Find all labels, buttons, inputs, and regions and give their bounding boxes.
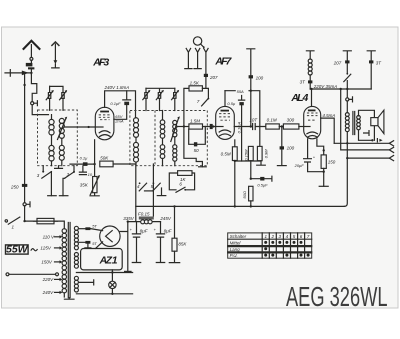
svg-text:0.5μ: 0.5μ bbox=[227, 101, 236, 106]
svg-text:0.5M: 0.5M bbox=[221, 152, 231, 157]
wire anode AF3 to 240V rail bbox=[105, 91, 136, 118]
wire bbox=[24, 187, 26, 203]
capacitor 0.1uF anode bbox=[123, 91, 131, 100]
wire bbox=[30, 60, 32, 74]
node antenna jack bbox=[30, 57, 33, 60]
ground external earth bar bbox=[9, 70, 11, 77]
jack headphone bbox=[364, 131, 369, 136]
svg-text:8μF: 8μF bbox=[164, 228, 172, 233]
wire AF7 top cap bbox=[224, 91, 226, 107]
capacitor 0.5u screen bbox=[239, 96, 245, 101]
node plug P1 bbox=[31, 102, 34, 105]
resistor 300 bbox=[283, 124, 299, 129]
speaker driver bbox=[371, 118, 378, 126]
node bbox=[212, 125, 214, 127]
node bbox=[23, 84, 25, 86]
coil L7 bbox=[160, 120, 165, 138]
svg-text:8μF: 8μF bbox=[140, 228, 148, 233]
wire antenna lead-in bbox=[30, 45, 32, 58]
resistor 0.5M bbox=[234, 140, 236, 147]
cathode AF7 arcs bbox=[219, 130, 230, 136]
symbol AC bbox=[31, 249, 38, 251]
connector arrow earth bbox=[22, 71, 29, 76]
svg-text:AF3: AF3 bbox=[92, 56, 109, 68]
svg-text:5T: 5T bbox=[92, 241, 97, 246]
polarity marks speaker lead bbox=[376, 139, 378, 142]
capacitor 3T bbox=[308, 80, 312, 83]
lamp dial indicator bbox=[193, 37, 201, 45]
switch S1 mains bbox=[5, 220, 7, 222]
ground cathode bbox=[257, 161, 266, 165]
svg-text:0.1μ: 0.1μ bbox=[80, 155, 89, 160]
svg-text:100: 100 bbox=[256, 75, 264, 80]
svg-text:50Ω: 50Ω bbox=[242, 191, 247, 199]
tube AL4 envelope bbox=[304, 106, 321, 138]
node bbox=[183, 125, 185, 127]
svg-text:AEG 326WL: AEG 326WL bbox=[286, 281, 388, 312]
svg-text:0.9M: 0.9M bbox=[264, 149, 269, 159]
transformer secondary mid bbox=[74, 253, 78, 269]
resistor 1.5K bbox=[189, 86, 202, 91]
node bbox=[250, 90, 252, 92]
coil L5 bbox=[134, 118, 139, 138]
capacitor 5T lower bbox=[96, 242, 103, 249]
wire bbox=[203, 126, 216, 128]
wire bbox=[113, 163, 136, 165]
wire band filter II internal bbox=[136, 111, 175, 166]
capacitor 10T coupling bbox=[234, 124, 265, 130]
tap T3 bbox=[343, 51, 351, 61]
svg-text:Schalter: Schalter bbox=[230, 234, 247, 239]
pin dial lamp 3 bbox=[204, 48, 208, 73]
wire grid lead inside AF7 bbox=[216, 126, 223, 128]
resistor 0.1M bbox=[266, 124, 280, 129]
capacitor 0.1u cathode bbox=[70, 163, 95, 165]
capacitor 0.5uF tone bbox=[251, 176, 272, 181]
tube AZ1 rectifier bbox=[100, 226, 120, 246]
capacitor 100 decoupling bbox=[249, 75, 253, 78]
wire cathode AF3 down bbox=[94, 140, 96, 164]
wire heater rails bbox=[76, 273, 132, 294]
capacitor 207 bbox=[204, 74, 208, 77]
band filter II dashed box bbox=[130, 111, 207, 166]
ground 100 bbox=[277, 165, 286, 167]
switch S2 speaker bbox=[346, 73, 348, 75]
svg-text:245V: 245V bbox=[159, 216, 172, 221]
resistor 85K bleeder bbox=[174, 206, 176, 238]
svg-text:0.1M: 0.1M bbox=[267, 118, 277, 123]
svg-text:P.U.: P.U. bbox=[230, 253, 238, 258]
svg-text:220V 35mA: 220V 35mA bbox=[313, 84, 338, 89]
svg-text:1.5M: 1.5M bbox=[190, 118, 200, 123]
svg-text:0.15M: 0.15M bbox=[244, 149, 249, 161]
trimmer capacitor C3 bbox=[143, 88, 151, 110]
svg-text:100: 100 bbox=[287, 146, 295, 151]
svg-text:AL 4: AL 4 bbox=[290, 92, 308, 104]
rail top B+ tap T1 bbox=[247, 49, 255, 75]
cathode AF3 arcs bbox=[99, 131, 110, 137]
tap T4 bbox=[367, 51, 375, 61]
ground band filter I bbox=[55, 166, 63, 169]
wire voltage selector bbox=[6, 273, 9, 276]
trimmer capacitor C5 bbox=[172, 88, 180, 110]
ground antenna2 bar bbox=[52, 64, 59, 68]
node bbox=[93, 163, 95, 165]
coil L1 antenna primary bbox=[49, 119, 54, 135]
arrow variable coupling L9 bbox=[171, 118, 179, 141]
core mains transformer bbox=[68, 223, 70, 298]
capacitor 5T upper bbox=[90, 229, 102, 231]
svg-text:F0.15: F0.15 bbox=[138, 211, 150, 216]
grid AL4 dashes bbox=[307, 113, 318, 120]
tap T2 with choke bbox=[306, 51, 314, 59]
node bbox=[23, 220, 25, 222]
node junction A bbox=[30, 72, 32, 74]
coil L3 bbox=[49, 145, 54, 161]
wire bus B+ bbox=[136, 205, 344, 207]
switch S5 bbox=[152, 164, 154, 216]
svg-text:240V 1.8mA: 240V 1.8mA bbox=[104, 85, 130, 90]
svg-text:207: 207 bbox=[333, 60, 342, 65]
speaker cone bbox=[378, 110, 384, 134]
anode AL4 bbox=[308, 110, 316, 112]
svg-text:150: 150 bbox=[328, 159, 336, 164]
tube AF7 envelope bbox=[216, 106, 235, 139]
svg-text:50: 50 bbox=[194, 148, 200, 153]
pin dial lamp 1 bbox=[185, 48, 192, 68]
svg-text:35K: 35K bbox=[80, 182, 89, 187]
label 55A on loop bbox=[236, 89, 249, 93]
ground S3b bbox=[59, 195, 68, 197]
transformer secondary heater bbox=[74, 276, 78, 292]
resistor 0.15M bbox=[248, 146, 253, 160]
svg-text:335V: 335V bbox=[123, 216, 135, 221]
wire shield loop top bbox=[225, 91, 260, 147]
grid AF3 dashes bbox=[99, 115, 111, 120]
wire line1 output bbox=[334, 142, 389, 144]
wire main line left bbox=[24, 73, 26, 184]
resistor 1.5M grid leak bbox=[189, 124, 203, 129]
grid AF7 dashes bbox=[219, 114, 231, 121]
ground AVC bbox=[199, 166, 207, 168]
switch S3b waveband bbox=[65, 172, 74, 178]
ground S5 bbox=[157, 195, 166, 197]
wire AVC up to 1.5K bbox=[184, 88, 189, 126]
capacitor 100 grid AL4 bbox=[281, 127, 283, 147]
fuse mains bbox=[37, 218, 54, 223]
tube AF3 envelope bbox=[95, 107, 114, 140]
transformer secondary heater AZ1 bbox=[74, 226, 78, 250]
loop resistor feedback with capacitor 50 bbox=[189, 127, 206, 145]
svg-text:4.5mA: 4.5mA bbox=[322, 113, 335, 118]
wire grid lead inside AF3 bbox=[96, 126, 104, 128]
node plug P2 bbox=[23, 203, 26, 206]
capacitor 3T right bbox=[369, 60, 373, 63]
wire grid lead inside AL4 bbox=[304, 126, 310, 128]
coil L4 bbox=[59, 145, 64, 160]
ground S3a bbox=[48, 195, 57, 197]
transformer mains primary bbox=[62, 229, 66, 293]
capacitor 250 bbox=[22, 184, 27, 187]
potentiometer 35K bbox=[94, 164, 96, 176]
capacitor antenna series blocks bbox=[26, 63, 33, 67]
resistor 1K loop bbox=[169, 173, 194, 190]
svg-text:55W: 55W bbox=[6, 243, 29, 255]
wire to transformer primary bbox=[54, 221, 64, 229]
capacitor 207 bbox=[345, 60, 349, 63]
capacitor 10 to ground bbox=[79, 166, 86, 175]
wire heater centre tap bbox=[79, 280, 94, 285]
wire AVC line bbox=[184, 127, 203, 167]
switch S3a waveband bbox=[42, 172, 52, 179]
antenna 2 short-wave symbol bbox=[52, 42, 59, 46]
wire bbox=[279, 126, 283, 128]
node bbox=[250, 178, 252, 180]
wire line2 output bbox=[341, 89, 390, 150]
wire anode AL4 to rail bbox=[311, 89, 313, 106]
trimmer capacitor C1 bbox=[46, 86, 54, 110]
svg-text:0.1mA: 0.1mA bbox=[236, 122, 241, 134]
wire secondary to speaker bbox=[359, 110, 375, 117]
wire to earth connector bbox=[5, 72, 31, 74]
wire main antenna line jog bbox=[31, 74, 36, 102]
svg-text:250: 250 bbox=[10, 184, 19, 189]
wire into band filter bbox=[32, 105, 48, 115]
node bbox=[281, 125, 283, 127]
wire bbox=[25, 206, 37, 221]
node bbox=[250, 125, 252, 127]
svg-text:10T: 10T bbox=[249, 118, 258, 123]
rail 220V screen bbox=[310, 88, 371, 90]
svg-text:2mA: 2mA bbox=[114, 119, 124, 124]
svg-text:220V: 220V bbox=[42, 277, 55, 282]
label 55W box bbox=[6, 245, 29, 254]
svg-text:Mittel: Mittel bbox=[230, 240, 242, 245]
capacitor grid AF7 block bbox=[210, 124, 213, 129]
coil L9 bbox=[173, 120, 177, 136]
svg-text:125V: 125V bbox=[40, 246, 52, 251]
band filter I dashed box bbox=[38, 110, 78, 166]
trimmer capacitor C2 bbox=[50, 86, 68, 110]
svg-text:55A: 55A bbox=[237, 89, 244, 94]
svg-text:Lang: Lang bbox=[230, 247, 241, 252]
wire grid AF3 bbox=[64, 126, 103, 128]
cathode AL4 arcs bbox=[307, 132, 318, 137]
svg-text:AF7: AF7 bbox=[214, 56, 232, 68]
svg-text:207: 207 bbox=[209, 75, 218, 80]
coil RF choke bbox=[308, 59, 312, 75]
capacitor 8uF second bbox=[156, 222, 164, 238]
transformer output primary bbox=[345, 113, 349, 132]
lamp dial bbox=[111, 270, 113, 281]
wire bbox=[202, 88, 208, 97]
anode AF3 bbox=[100, 111, 109, 113]
switch S4 bbox=[135, 164, 137, 221]
wire primary bottom bbox=[346, 132, 348, 144]
node bbox=[234, 160, 236, 162]
wire AZ1 anode right bbox=[120, 222, 128, 272]
antenna symbol bbox=[23, 41, 40, 50]
resistor 50K cathode bbox=[100, 161, 113, 167]
filament AZ1 bbox=[106, 231, 113, 242]
ground 35K bbox=[90, 193, 99, 196]
ground cathode AL4 bbox=[319, 185, 328, 187]
wire to AL4 grid bbox=[299, 126, 310, 128]
dashed divider band filter II bbox=[154, 111, 156, 166]
capacitor 50 bbox=[194, 142, 197, 146]
coil L10 bbox=[173, 145, 177, 162]
arrow variable coupling L2 bbox=[58, 119, 66, 140]
switch S7 bbox=[208, 98, 210, 100]
wire down to bus bbox=[344, 143, 347, 206]
resistor 150 cathode bbox=[317, 139, 324, 155]
capacitor 20uF cathode bbox=[304, 139, 312, 162]
svg-text:1.5K: 1.5K bbox=[190, 81, 200, 86]
wire heater loop AZ1 bbox=[81, 249, 123, 270]
table switch positions bbox=[228, 233, 312, 258]
svg-text:5T: 5T bbox=[92, 224, 97, 229]
svg-text:110 V: 110 V bbox=[43, 234, 55, 239]
wire band filter I internal bbox=[52, 115, 62, 166]
svg-text:0.1μF: 0.1μF bbox=[110, 101, 121, 106]
resistor 0.9M bbox=[257, 146, 262, 160]
capacitor 8uF first bbox=[132, 222, 140, 238]
wire cathode ground line bbox=[235, 161, 261, 179]
svg-text:150V: 150V bbox=[41, 260, 53, 265]
svg-text:0.5μF: 0.5μF bbox=[257, 183, 268, 188]
wire line3 output bbox=[347, 157, 389, 159]
svg-text:50K: 50K bbox=[100, 156, 109, 161]
node bbox=[88, 126, 90, 128]
svg-text:20μF: 20μF bbox=[294, 163, 305, 168]
anode AF7 bbox=[221, 110, 230, 112]
ground core bbox=[64, 298, 74, 300]
coil L6 bbox=[134, 142, 139, 162]
svg-text:300: 300 bbox=[287, 118, 295, 123]
fuse F0.15 bbox=[128, 221, 161, 223]
wire primary bottom bbox=[63, 293, 65, 297]
pin dial lamp 2 bbox=[194, 48, 201, 68]
coil L2 antenna secondary bbox=[59, 118, 64, 138]
wire grid AF7 from filter bbox=[177, 126, 189, 128]
coil L8 bbox=[160, 145, 165, 159]
svg-text:85K: 85K bbox=[178, 241, 187, 246]
node plug P3 output bbox=[346, 98, 349, 101]
svg-text:240V: 240V bbox=[42, 290, 55, 295]
trimmer capacitor C4 bbox=[146, 88, 175, 110]
transformer output secondary bbox=[357, 116, 361, 130]
wire AL4 output bbox=[321, 118, 335, 143]
svg-text:2: 2 bbox=[271, 234, 275, 239]
resistor 50ohm bbox=[249, 186, 253, 201]
svg-text:AZ 1: AZ 1 bbox=[99, 255, 118, 267]
core output transformer bbox=[353, 112, 355, 135]
